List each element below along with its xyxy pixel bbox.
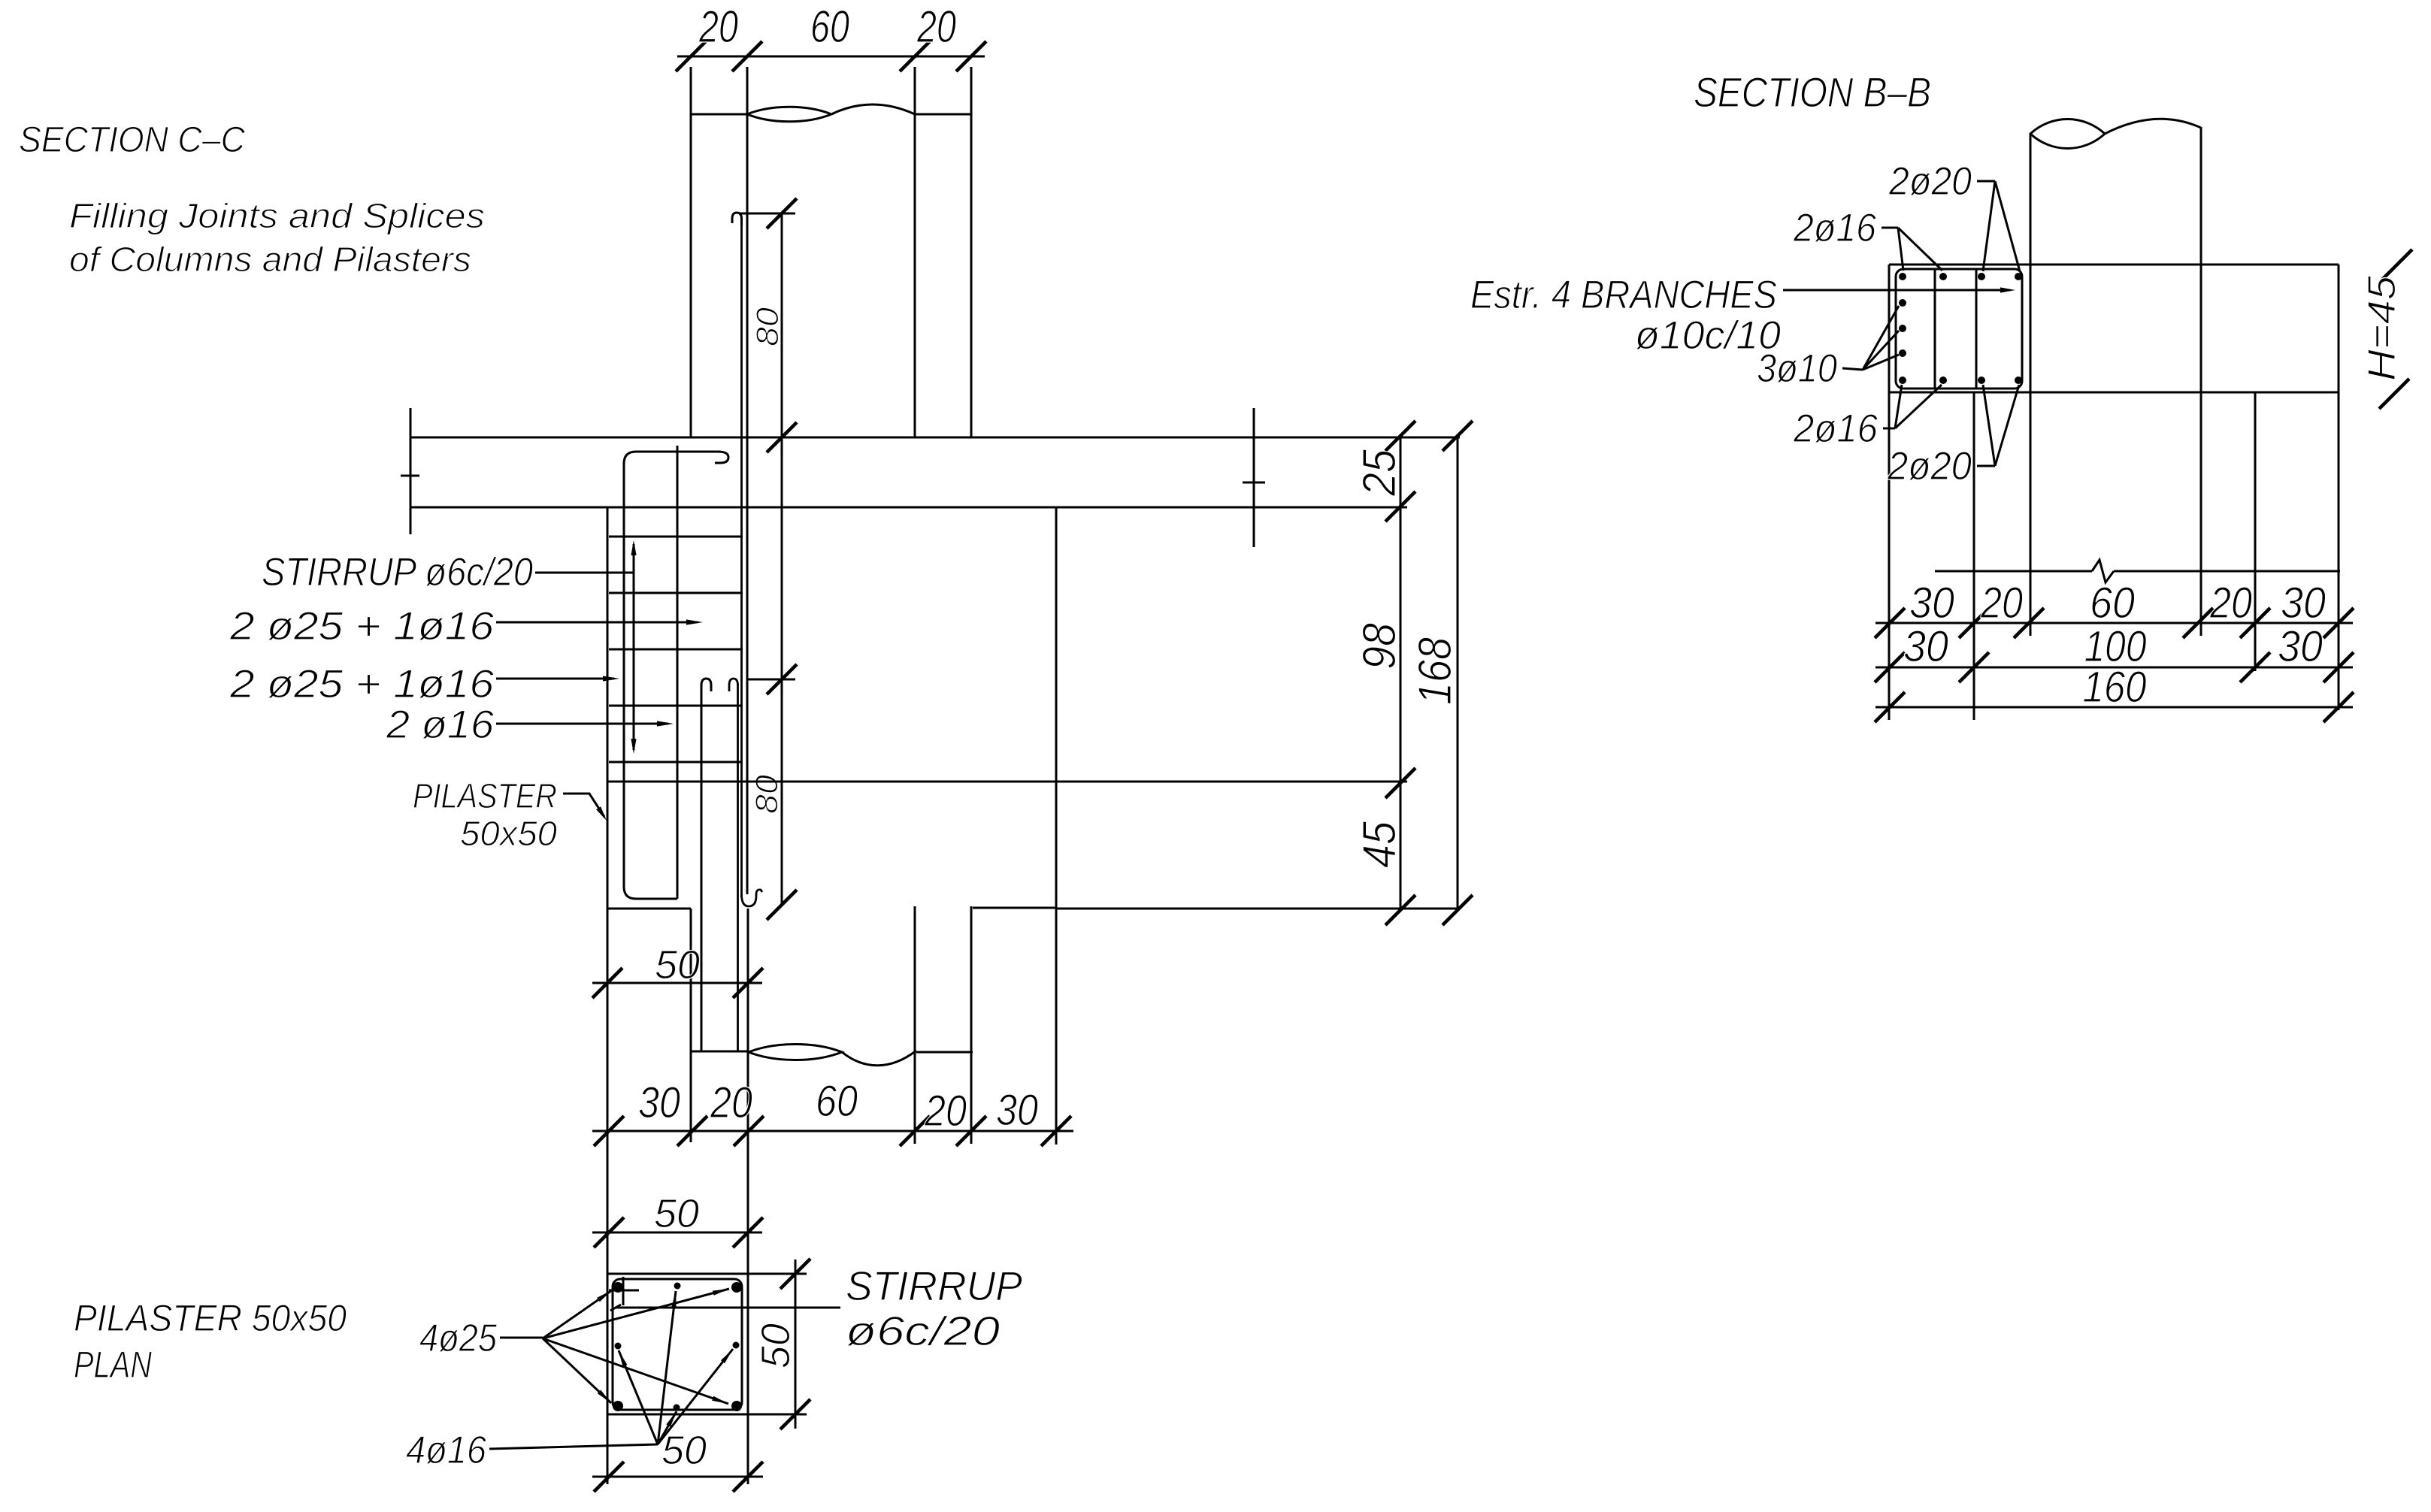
svg-text:2 ø25 + 1ø16: 2 ø25 + 1ø16: [229, 604, 495, 649]
svg-text:2 ø25 + 1ø16: 2 ø25 + 1ø16: [229, 662, 495, 706]
svg-text:50: 50: [661, 1428, 707, 1473]
svg-text:2ø16: 2ø16: [1793, 407, 1878, 451]
svg-text:PLAN: PLAN: [74, 1344, 153, 1386]
svg-text:STIRRUP ø6c/20: STIRRUP ø6c/20: [262, 550, 533, 594]
svg-text:2ø20: 2ø20: [1888, 159, 1972, 204]
svg-text:20: 20: [916, 2, 956, 52]
svg-text:80: 80: [749, 774, 784, 814]
svg-text:3ø10: 3ø10: [1757, 346, 1837, 391]
svg-text:50: 50: [654, 1191, 699, 1236]
svg-text:60: 60: [810, 2, 849, 52]
svg-text:30: 30: [996, 1086, 1038, 1135]
svg-text:SECTION C–C: SECTION C–C: [19, 120, 245, 160]
svg-text:20: 20: [924, 1087, 967, 1136]
svg-text:2 ø16: 2 ø16: [386, 703, 495, 747]
svg-text:50x50: 50x50: [460, 814, 557, 853]
svg-text:20: 20: [2209, 579, 2252, 627]
svg-text:30: 30: [1909, 579, 1954, 627]
svg-text:50: 50: [753, 1323, 798, 1368]
svg-text:30: 30: [1903, 622, 1948, 671]
svg-text:SECTION B–B: SECTION B–B: [1694, 68, 1931, 116]
svg-text:25: 25: [1354, 449, 1406, 497]
svg-text:of Columns and Pilasters: of Columns and Pilasters: [69, 240, 471, 279]
svg-text:Filling Joints and Splices: Filling Joints and Splices: [69, 196, 485, 235]
svg-text:98: 98: [1354, 623, 1406, 670]
svg-text:45: 45: [1354, 821, 1406, 868]
svg-text:2ø16: 2ø16: [1793, 206, 1876, 250]
svg-text:60: 60: [816, 1077, 858, 1126]
svg-text:30: 30: [638, 1078, 680, 1127]
svg-text:Estr. 4 BRANCHES: Estr. 4 BRANCHES: [1470, 273, 1777, 317]
svg-text:30: 30: [2281, 579, 2326, 627]
svg-text:160: 160: [2083, 663, 2147, 712]
svg-text:20: 20: [1980, 579, 2023, 627]
svg-text:50: 50: [655, 942, 700, 987]
svg-text:168: 168: [1409, 637, 1461, 705]
svg-text:2ø20: 2ø20: [1887, 444, 1972, 488]
svg-text:60: 60: [2090, 579, 2135, 627]
svg-text:20: 20: [710, 1078, 752, 1127]
svg-text:PILASTER 50x50: PILASTER 50x50: [74, 1297, 347, 1339]
svg-text:20: 20: [698, 2, 738, 52]
svg-text:4ø16: 4ø16: [406, 1429, 486, 1472]
svg-text:ø6c/20: ø6c/20: [846, 1308, 1000, 1354]
svg-text:4ø25: 4ø25: [419, 1317, 498, 1360]
svg-text:H=45: H=45: [2360, 275, 2404, 381]
svg-text:STIRRUP: STIRRUP: [846, 1263, 1022, 1309]
svg-text:30: 30: [2278, 622, 2323, 671]
svg-text:80: 80: [749, 307, 785, 346]
svg-text:PILASTER: PILASTER: [413, 776, 557, 815]
